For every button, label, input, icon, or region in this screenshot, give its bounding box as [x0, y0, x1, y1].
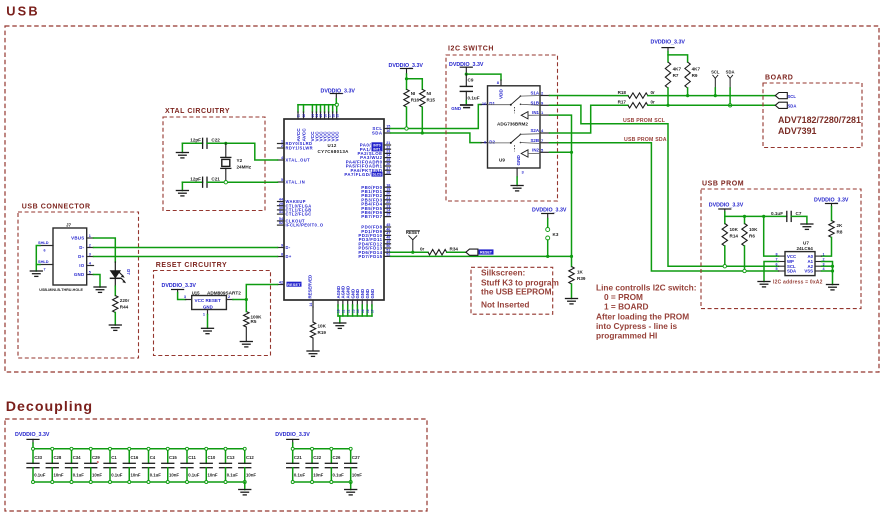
svg-text:DVDDIO_3.3V: DVDDIO_3.3V: [532, 207, 567, 213]
svg-text:14: 14: [356, 309, 360, 313]
svg-text:C22: C22: [313, 455, 321, 460]
svg-text:IFCLK/PE0/T0_O: IFCLK/PE0/T0_O: [286, 223, 324, 228]
svg-text:24MHz: 24MHz: [237, 164, 252, 169]
svg-text:DVDDIO_3.3V: DVDDIO_3.3V: [15, 432, 50, 438]
svg-text:C29: C29: [92, 455, 100, 460]
svg-text:0r: 0r: [651, 90, 656, 95]
svg-text:U15: U15: [192, 291, 200, 296]
svg-text:BOARD: BOARD: [765, 75, 793, 82]
svg-text:R39: R39: [577, 276, 586, 281]
svg-text:0.1uF: 0.1uF: [73, 472, 85, 477]
svg-text:SDA: SDA: [788, 104, 797, 109]
svg-text:0.1uF: 0.1uF: [468, 95, 480, 100]
svg-text:programmed HI: programmed HI: [596, 331, 657, 341]
svg-text:ADM809SART2: ADM809SART2: [207, 291, 241, 296]
svg-text:C1: C1: [111, 455, 117, 460]
svg-text:C28: C28: [53, 455, 61, 460]
svg-text:C7: C7: [796, 211, 802, 216]
svg-text:SCL: SCL: [711, 69, 720, 74]
svg-text:VBUS: VBUS: [71, 236, 84, 241]
svg-text:IN1: IN1: [532, 110, 539, 115]
svg-text:4K7: 4K7: [692, 67, 701, 72]
svg-text:R18: R18: [618, 90, 627, 95]
svg-text:2: 2: [281, 144, 283, 148]
svg-text:CY7C68013A: CY7C68013A: [318, 149, 350, 154]
svg-text:17: 17: [371, 309, 375, 313]
svg-text:USB PROM SDA: USB PROM SDA: [624, 137, 667, 143]
svg-text:C26: C26: [333, 455, 341, 460]
svg-text:S1A: S1A: [530, 91, 539, 96]
svg-text:SHLD: SHLD: [38, 259, 49, 264]
svg-text:VDD: VDD: [499, 88, 504, 99]
svg-text:Line controlls I2C switch:: Line controlls I2C switch:: [596, 283, 697, 293]
svg-text:NI: NI: [427, 91, 432, 96]
svg-text:10K: 10K: [318, 324, 327, 329]
svg-text:28: 28: [386, 171, 390, 175]
svg-text:R19: R19: [318, 330, 327, 335]
svg-text:IO: IO: [79, 263, 85, 268]
svg-text:Not Inserted: Not Inserted: [481, 300, 529, 310]
svg-text:GND: GND: [451, 106, 461, 111]
svg-text:R15: R15: [427, 98, 436, 103]
svg-text:16: 16: [386, 129, 390, 133]
svg-text:10nF: 10nF: [130, 472, 140, 477]
svg-text:10nF: 10nF: [246, 472, 256, 477]
svg-text:R6: R6: [749, 234, 755, 239]
svg-text:C10: C10: [207, 455, 215, 460]
svg-text:10nF: 10nF: [92, 472, 102, 477]
svg-text:K3: K3: [553, 232, 559, 237]
svg-text:13: 13: [351, 309, 355, 313]
svg-text:C11: C11: [188, 455, 196, 460]
svg-text:52: 52: [386, 253, 390, 257]
svg-text:CTL2/FLGC: CTL2/FLGC: [286, 212, 312, 217]
svg-text:12: 12: [302, 114, 306, 118]
svg-text:ADV7182/7280/7281: ADV7182/7280/7281: [778, 115, 861, 125]
svg-text:XTAL CIRCUITRY: XTAL CIRCUITRY: [165, 108, 230, 115]
svg-text:R7: R7: [673, 73, 679, 78]
svg-text:6: 6: [775, 262, 777, 266]
svg-text:3: 3: [184, 295, 186, 299]
svg-text:15: 15: [386, 125, 390, 129]
svg-text:RESET CIRCUITRY: RESET CIRCUITRY: [156, 262, 227, 269]
svg-text:10K: 10K: [730, 227, 739, 232]
svg-text:D-: D-: [286, 245, 291, 250]
svg-text:PD7/FD15: PD7/FD15: [358, 254, 382, 259]
svg-text:C16: C16: [130, 455, 138, 460]
svg-text:10: 10: [482, 101, 487, 106]
svg-text:C4: C4: [150, 455, 156, 460]
svg-text:0.1uF: 0.1uF: [771, 211, 783, 216]
svg-text:42: 42: [279, 281, 283, 285]
svg-text:11: 11: [342, 309, 346, 313]
svg-text:0.1uF: 0.1uF: [294, 472, 306, 477]
svg-text:C15: C15: [169, 455, 177, 460]
svg-text:C13: C13: [227, 455, 235, 460]
svg-text:24LC64: 24LC64: [797, 246, 814, 251]
svg-text:VCC RESET: VCC RESET: [195, 298, 221, 303]
svg-text:12pF: 12pF: [190, 177, 201, 182]
svg-text:ADV7391: ADV7391: [778, 126, 817, 136]
svg-text:DVDDIO_3.3V: DVDDIO_3.3V: [321, 88, 356, 94]
svg-text:I2C address = 0xA2: I2C address = 0xA2: [773, 280, 823, 286]
svg-text:3: 3: [89, 253, 91, 257]
svg-text:R44: R44: [120, 305, 129, 310]
svg-text:USB PROM: USB PROM: [702, 181, 744, 188]
svg-text:DVDDIO_3.3V: DVDDIO_3.3V: [162, 283, 197, 289]
svg-text:10nF: 10nF: [313, 472, 323, 477]
svg-text:0.1uF: 0.1uF: [34, 472, 46, 477]
svg-text:1 = BOARD: 1 = BOARD: [604, 302, 649, 312]
svg-text:D7: D7: [126, 269, 131, 275]
svg-text:SHLD: SHLD: [38, 240, 49, 245]
svg-text:C27: C27: [352, 455, 360, 460]
svg-text:7: 7: [44, 268, 46, 272]
svg-text:6: 6: [44, 249, 46, 253]
svg-text:R16: R16: [411, 98, 420, 103]
svg-text:2: 2: [228, 295, 230, 299]
svg-text:16: 16: [366, 309, 370, 313]
svg-text:RESET: RESET: [287, 283, 301, 287]
svg-text:1: 1: [89, 234, 91, 238]
svg-text:0.1uF: 0.1uF: [333, 472, 345, 477]
svg-text:10nF: 10nF: [169, 472, 179, 477]
svg-text:5: 5: [89, 271, 91, 275]
svg-text:D-: D-: [79, 245, 84, 250]
svg-text:USB CONNECTOR: USB CONNECTOR: [22, 204, 91, 211]
svg-text:U9: U9: [499, 158, 505, 163]
svg-text:0.1uF: 0.1uF: [188, 472, 200, 477]
svg-text:0.1uF: 0.1uF: [150, 472, 162, 477]
svg-text:220r: 220r: [120, 298, 130, 303]
svg-text:GND: GND: [203, 304, 213, 309]
svg-text:10nF: 10nF: [352, 472, 362, 477]
svg-text:R8: R8: [837, 230, 843, 235]
svg-text:8: 8: [281, 253, 283, 257]
svg-text:Y2: Y2: [237, 158, 243, 163]
svg-text:Silkscreen:: Silkscreen:: [481, 268, 525, 278]
svg-text:GND: GND: [74, 272, 85, 277]
svg-text:PB7/FD7: PB7/FD7: [361, 214, 382, 219]
svg-text:SDA: SDA: [372, 131, 383, 136]
svg-text:S2A: S2A: [530, 128, 539, 133]
svg-text:10nF: 10nF: [53, 472, 63, 477]
svg-text:XTAL_IN: XTAL_IN: [286, 180, 306, 185]
svg-text:1K: 1K: [577, 270, 584, 275]
svg-text:I2C SWITCH: I2C SWITCH: [448, 45, 494, 52]
svg-text:USB: USB: [6, 4, 40, 19]
svg-text:9: 9: [281, 244, 283, 248]
svg-text:XTAL_OUT: XTAL_OUT: [286, 158, 311, 163]
svg-text:SDA: SDA: [726, 69, 735, 74]
svg-text:C9: C9: [468, 78, 474, 83]
svg-text:R17: R17: [618, 100, 627, 105]
svg-text:R14: R14: [730, 234, 739, 239]
svg-text:0r: 0r: [420, 247, 425, 252]
svg-text:0.1uF: 0.1uF: [111, 472, 123, 477]
svg-text:R5: R5: [251, 319, 257, 324]
svg-text:A0: A0: [808, 254, 814, 259]
svg-text:D+: D+: [286, 254, 292, 259]
svg-text:SLCS: SLCS: [372, 173, 382, 177]
svg-text:52: 52: [279, 221, 283, 225]
svg-text:0.1uF: 0.1uF: [227, 472, 239, 477]
svg-text:12: 12: [346, 309, 350, 313]
svg-text:5: 5: [281, 178, 283, 182]
svg-text:4K7: 4K7: [673, 67, 682, 72]
svg-text:R34: R34: [450, 247, 459, 252]
svg-text:SDA: SDA: [787, 269, 796, 274]
svg-text:DVDDIO_3.3V: DVDDIO_3.3V: [275, 432, 310, 438]
svg-text:SCL: SCL: [788, 94, 797, 99]
svg-text:10K: 10K: [749, 227, 758, 232]
svg-text:C33: C33: [34, 455, 42, 460]
svg-text:GND: GND: [516, 154, 521, 165]
svg-text:VCC: VCC: [335, 131, 341, 142]
svg-text:S2B: S2B: [530, 138, 539, 143]
svg-text:0 = PROM: 0 = PROM: [604, 292, 643, 302]
svg-text:C34: C34: [73, 455, 81, 460]
svg-text:ADG736BRM2: ADG736BRM2: [497, 121, 528, 126]
svg-text:10nF: 10nF: [207, 472, 217, 477]
svg-text:AVCC: AVCC: [296, 128, 302, 142]
svg-text:USB PROM SCL: USB PROM SCL: [623, 118, 666, 124]
svg-text:Decoupling: Decoupling: [6, 399, 93, 415]
svg-text:VCC: VCC: [787, 254, 796, 259]
svg-text:C21: C21: [294, 455, 302, 460]
svg-text:C22: C22: [211, 138, 220, 143]
svg-text:2: 2: [89, 244, 91, 248]
svg-text:DVDDIO_3.3V: DVDDIO_3.3V: [814, 197, 849, 203]
svg-text:R9: R9: [692, 73, 698, 78]
svg-text:12pF: 12pF: [190, 138, 201, 143]
svg-text:VSS: VSS: [804, 269, 813, 274]
svg-text:IN2: IN2: [532, 147, 539, 152]
svg-text:the USB EEPROM: the USB EEPROM: [481, 286, 552, 296]
svg-text:10: 10: [337, 309, 341, 313]
svg-text:31: 31: [279, 210, 283, 214]
svg-text:19: 19: [335, 114, 339, 118]
svg-text:PA7/FLGD/: PA7/FLGD/: [344, 172, 371, 177]
svg-text:GND: GND: [370, 289, 375, 299]
svg-text:1: 1: [281, 140, 283, 144]
svg-text:NI: NI: [411, 91, 416, 96]
svg-text:AVCC: AVCC: [301, 128, 307, 142]
svg-text:1: 1: [203, 313, 205, 317]
svg-text:15: 15: [361, 309, 365, 313]
svg-text:0r: 0r: [651, 100, 656, 105]
svg-text:J7: J7: [66, 223, 72, 228]
svg-text:C12: C12: [246, 455, 254, 460]
svg-text:11: 11: [297, 114, 301, 118]
svg-text:5: 5: [775, 267, 777, 271]
svg-text:DVDDIO_3.3V: DVDDIO_3.3V: [709, 203, 744, 209]
svg-text:D1: D1: [489, 101, 495, 106]
svg-text:2K: 2K: [837, 223, 844, 228]
svg-text:C21: C21: [211, 177, 220, 182]
svg-text:RESERVED: RESERVED: [308, 275, 313, 299]
svg-text:D2: D2: [489, 139, 495, 144]
svg-text:RDY1/SLWR: RDY1/SLWR: [286, 146, 313, 151]
svg-text:U7: U7: [803, 241, 809, 246]
svg-text:U12: U12: [328, 143, 337, 148]
svg-text:RESET: RESET: [480, 251, 493, 255]
svg-text:into Cypress - line is: into Cypress - line is: [596, 321, 678, 331]
svg-text:After loading the PROM: After loading the PROM: [596, 312, 689, 322]
svg-text:25: 25: [386, 213, 390, 217]
svg-text:DVDDIO_3.3V: DVDDIO_3.3V: [651, 40, 686, 46]
svg-text:1: 1: [823, 252, 825, 256]
svg-text:USB-MINI-B-THRU-HOLE: USB-MINI-B-THRU-HOLE: [39, 288, 83, 292]
svg-text:14: 14: [309, 303, 313, 307]
svg-text:D+: D+: [78, 254, 84, 259]
